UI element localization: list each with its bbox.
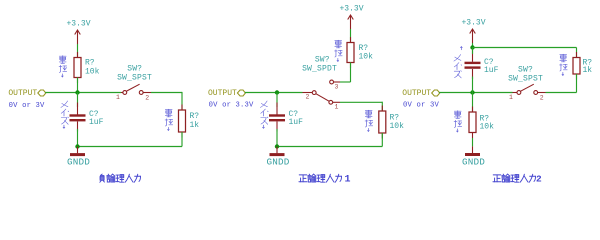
wire node to C1 [77,93,79,108]
capacitor C3 bottom pin [472,69,474,79]
annotation note current note R6 [560,54,568,75]
global label OUTPUT shape [432,90,440,96]
resistor R4 [379,111,386,133]
wire down to R2 [181,92,183,110]
switch SW2 pin2 stub [303,92,313,94]
wire R1 to node OUTPUT1 [77,78,79,93]
svg-text:0V or 3.3V: 0V or 3.3V [209,102,254,110]
switch SW2 pin1 stub [333,101,340,103]
junction node OUTPUT2 [275,90,279,94]
svg-text:1: 1 [345,174,351,185]
annotation note noise note C3 [454,47,462,78]
capacitor C1 bottom pin [77,122,79,132]
ground GND2 symbol [270,153,285,156]
ground GND1 pin [77,147,79,154]
svg-text:2: 2 [306,94,310,101]
svg-text:0V or 3V: 0V or 3V [9,102,45,110]
svg-text:OUTPUT: OUTPUT [208,89,237,98]
ground GND1 symbol [70,153,85,156]
resistor R3 [347,43,354,63]
switch SW2 pin3 contact [330,80,334,84]
wire OUTPUT3 to node [439,92,472,94]
svg-text:2: 2 [536,173,542,184]
svg-text:+3.3V: +3.3V [461,19,485,28]
annotation note current note R1 [59,56,67,77]
resistor R1 [74,58,81,78]
wire R6 to SW3 pin2 [576,74,578,93]
capacitor C3 top pin [472,50,474,62]
wire R3 to SW2 pin3 [350,63,352,83]
svg-text:10k: 10k [85,68,100,77]
svg-text:SW?: SW? [518,66,533,75]
svg-text:10k: 10k [480,123,495,132]
svg-text:10k: 10k [359,53,374,62]
wire C1 to ground node [77,129,79,147]
wire C3 to node [472,77,474,93]
capacitor C3 [465,62,481,69]
svg-text:R?: R? [85,59,95,68]
svg-text:2: 2 [145,95,149,102]
annotation note current note R2 [165,109,173,130]
resistor R5 [469,112,476,133]
svg-text:2: 2 [540,95,544,102]
wire C2 to ground node [276,129,278,147]
capacitor C2 bottom pin [276,122,278,132]
switch SW2 pin3 stub [334,81,341,83]
wire R5 to ground [472,138,474,146]
power symbol +3.3V PWR3 arrow [470,29,476,43]
power symbol +3.3V PWR1 arrow [75,30,81,44]
junction node OUTPUT3 [470,90,474,94]
junction ground node circuit2 [275,144,279,148]
wire OUTPUT1 to SW1 pin1 [45,92,121,94]
wire top circuit3 [473,47,577,49]
switch SW2 pin2 contact [312,91,316,95]
annotation note noise note C1 [61,101,69,128]
svg-text:GNDD: GNDD [266,157,289,168]
capacitor C1 top pin [77,103,79,115]
svg-text:SW?: SW? [127,65,142,74]
switch SW3 contacts [534,91,538,95]
wire node to R5 [472,93,474,113]
svg-text:1: 1 [335,104,339,111]
wire to SW2 pin3 stub [340,81,351,83]
svg-text:+3.3V: +3.3V [66,20,90,29]
global label OUTPUT shape [38,90,46,96]
svg-text:1k: 1k [583,66,593,75]
svg-text:SW?: SW? [315,56,330,65]
wire from +3.3V PWR3 [472,43,474,48]
svg-text:SW_SPDT: SW_SPDT [302,65,337,74]
resistor R6 [573,58,580,75]
annotation note noise note C2 [260,101,268,128]
junction node OUTPUT1 [75,90,79,94]
junction ground node circuit1 [75,144,79,148]
wire R2 to bottom [181,132,183,147]
resistor R3 pins [350,37,352,43]
wire bottom circuit2 [277,146,382,148]
svg-text:1: 1 [116,94,120,101]
svg-text:OUTPUT: OUTPUT [8,89,37,98]
wire R4 to bottom [381,133,383,147]
ground GND2 pin [276,147,278,154]
svg-text:OUTPUT: OUTPUT [402,89,431,98]
resistor R2 pins [181,105,183,111]
wire OUTPUT2 to SW2 pin2 [245,92,303,94]
svg-text:0V or 3V: 0V or 3V [403,102,439,110]
junction top node circuit3 [470,45,474,49]
capacitor C1 [70,114,86,121]
wire node to C2 [276,93,278,108]
svg-text:+3.3V: +3.3V [339,5,363,14]
wire down to R4 [381,102,383,111]
switch SW3 pin2 stub [538,92,546,94]
wire from +3.3V PWR2 [350,29,352,43]
ground GND3 symbol [465,153,480,156]
wire SW3 pin1 to node [473,92,513,94]
label positive logic input 1 (Japanese) [299,174,351,185]
resistor R4 pins [381,106,383,112]
svg-text:SW_SPST: SW_SPST [508,75,543,84]
switch SW1 pin1 stub [121,92,123,94]
label negative logic input (Japanese) [100,174,141,182]
ground GND3 pin [472,146,474,153]
svg-text:R?: R? [190,112,200,121]
wire to SW3 pin2 [546,92,577,94]
switch SW1 pin2 stub [143,92,151,94]
svg-text:10k: 10k [390,122,405,131]
global label OUTPUT shape [237,90,245,96]
power symbol +3.3V PWR2 arrow [348,15,354,29]
wire down to R6 [576,48,578,58]
switch SW2 pin1 contact [329,100,333,104]
svg-text:1uF: 1uF [289,118,304,127]
switch SW3 pin1 stub [511,92,518,94]
resistor R1 pins [77,52,79,58]
wire from +3.3V PWR1 [77,44,79,58]
svg-text:1uF: 1uF [89,118,104,127]
resistor R5 pins [472,107,474,113]
switch SW1 contacts [123,91,127,95]
svg-text:SW_SPST: SW_SPST [117,74,152,83]
svg-text:GNDD: GNDD [67,157,90,168]
resistor R6 pins [576,52,578,58]
svg-text:1uF: 1uF [484,66,499,75]
wire bottom circuit1 [78,146,183,148]
label positive logic input 2 (Japanese) [493,173,542,184]
svg-text:1k: 1k [190,121,200,130]
wire SW2 pin1 to R4 [340,101,382,103]
capacitor C2 [269,114,285,121]
svg-text:3: 3 [335,84,339,91]
resistor R2 [179,110,186,132]
svg-text:1: 1 [509,94,513,101]
switch SW2 lever [316,94,329,102]
annotation note current note R4 [365,110,373,131]
annotation note current note R3 [335,40,343,61]
wire SW1 pin2 to R2 [151,92,182,94]
capacitor C3 top wire [472,48,474,55]
annotation note current note R5 [454,111,462,132]
capacitor C2 top pin [276,103,278,115]
svg-text:GNDD: GNDD [462,157,485,168]
